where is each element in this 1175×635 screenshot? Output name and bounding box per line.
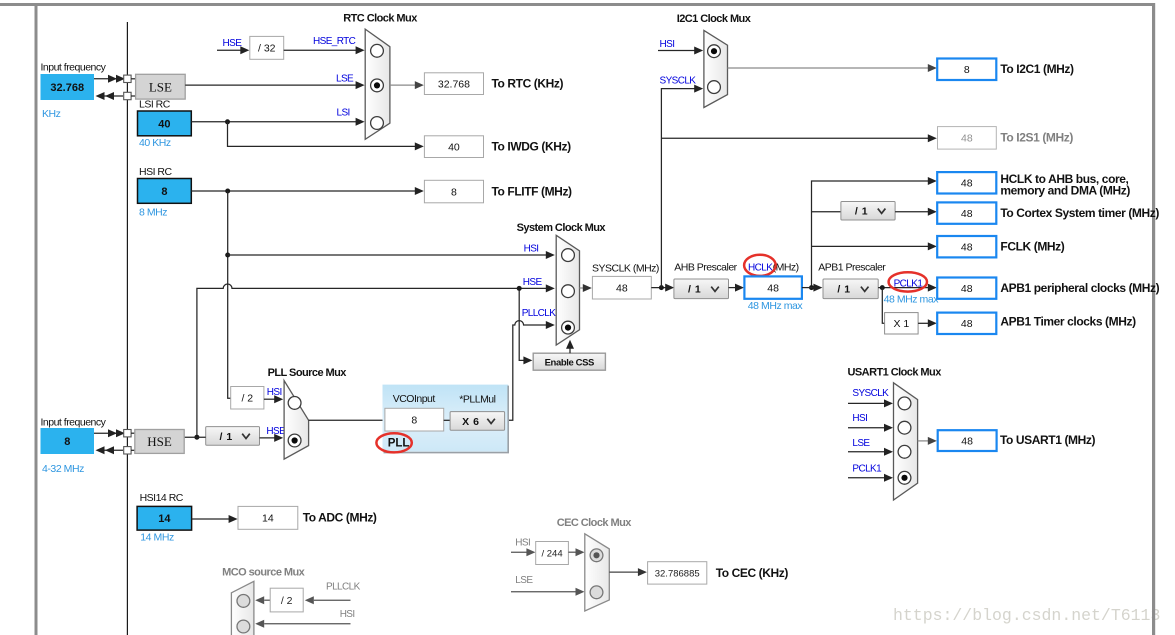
wire prescaler to PLL mux — [260, 437, 277, 439]
wire HSE to system clock mux with hop — [197, 284, 548, 437]
wire port to LSE box — [131, 78, 136, 80]
oscillator HSI RC box 8 — [138, 179, 192, 204]
value box To CEC — [648, 562, 707, 584]
red ellipse HCLK — [744, 255, 776, 276]
wire cortex to box — [895, 211, 930, 213]
value box SYSCLK 48 — [592, 276, 651, 299]
svg-text:MCO source Mux: MCO source Mux — [222, 566, 306, 578]
svg-text:48 MHz max: 48 MHz max — [748, 300, 804, 312]
svg-text:48: 48 — [961, 241, 973, 253]
divider MCO /2 box — [270, 588, 303, 612]
value box To IWDG — [424, 136, 483, 158]
wire HCLK bracket vertical — [812, 181, 931, 288]
mux MCO source Mux — [231, 581, 254, 635]
svg-text:HSE: HSE — [223, 38, 243, 49]
wire /244 to CEC mux — [568, 551, 578, 553]
svg-text:APB1 Timer clocks (MHz): APB1 Timer clocks (MHz) — [1000, 315, 1136, 329]
wire to X1 multiplier — [882, 288, 884, 324]
svg-text:To I2S1 (MHz): To I2S1 (MHz) — [1000, 131, 1073, 145]
svg-text:/ 1: / 1 — [837, 284, 850, 296]
port square in — [124, 75, 131, 82]
svg-text:*PLLMul: *PLLMul — [459, 394, 495, 406]
divider /32 box — [250, 36, 284, 59]
svg-text:LSE: LSE — [149, 80, 172, 95]
wire HSI to system clock mux — [228, 254, 548, 256]
svg-text:VCOInput: VCOInput — [393, 393, 436, 405]
svg-text:AHB Prescaler: AHB Prescaler — [674, 262, 737, 274]
wire Enable CSS to mux — [569, 346, 571, 353]
svg-text:HSI: HSI — [340, 609, 355, 620]
wire into /2 from PLLCLK — [305, 596, 314, 604]
divider /2 box — [231, 387, 264, 410]
oscillator HSI14 box 14 — [137, 506, 192, 530]
value box To ADC 14 — [238, 506, 298, 529]
svg-text:/ 1: / 1 — [220, 431, 233, 443]
svg-text:To FLITF (MHz): To FLITF (MHz) — [492, 184, 573, 198]
panel frame right edge — [1152, 3, 1155, 635]
svg-text:USART1 Clock Mux: USART1 Clock Mux — [848, 367, 943, 379]
svg-text:HSE: HSE — [147, 434, 172, 449]
svg-text:KHz: KHz — [42, 108, 61, 120]
value box To I2C1 — [937, 59, 996, 81]
dropdown PLLMul X6 — [450, 412, 505, 431]
PLL block panel — [383, 385, 509, 452]
svg-text:SYSCLK: SYSCLK — [852, 388, 889, 399]
svg-text:HSE: HSE — [523, 277, 543, 288]
svg-text:APB1 peripheral clocks (MHz): APB1 peripheral clocks (MHz) — [1000, 281, 1159, 295]
port square in (HSE) — [124, 430, 131, 437]
wire HSI to USART1 mux — [848, 427, 887, 429]
dropdown AHB /1 — [674, 279, 729, 299]
svg-text:To I2C1 (MHz): To I2C1 (MHz) — [1000, 62, 1074, 76]
svg-text:memory and DMA (MHz): memory and DMA (MHz) — [1000, 183, 1130, 197]
svg-text:PCLK1: PCLK1 — [852, 463, 882, 474]
svg-text:HSI14 RC: HSI14 RC — [140, 492, 184, 504]
wire PLLCLK to system clock mux with hop — [505, 321, 548, 421]
svg-text:/ 2: / 2 — [241, 392, 253, 404]
svg-text:CEC Clock Mux: CEC Clock Mux — [557, 517, 633, 529]
svg-text:32.768: 32.768 — [438, 78, 470, 90]
svg-text:RTC Clock Mux: RTC Clock Mux — [343, 13, 418, 25]
port square out (HSE) — [124, 447, 131, 454]
wire input to HSE port — [94, 432, 123, 434]
svg-text:HCLK: HCLK — [748, 263, 773, 274]
value box To USART1 — [938, 430, 997, 451]
svg-text:32.768: 32.768 — [50, 82, 84, 94]
wire HSI to FLITF — [191, 190, 417, 192]
svg-text:To IWDG (KHz): To IWDG (KHz) — [492, 140, 572, 154]
wire HSE to /32 — [217, 49, 243, 51]
svg-text:PLLCLK: PLLCLK — [522, 308, 557, 319]
svg-text:System Clock Mux: System Clock Mux — [517, 222, 607, 234]
wire LSE to USART1 mux — [848, 451, 887, 453]
wire USART1 mux output — [918, 440, 930, 442]
wire HSI to I2C1 mux — [658, 50, 697, 52]
red ellipse PLL — [376, 433, 411, 452]
svg-text:PLL: PLL — [388, 438, 410, 450]
svg-text:48: 48 — [961, 318, 973, 330]
value box FCLK — [937, 236, 996, 257]
svg-text:8 MHz: 8 MHz — [139, 207, 167, 219]
svg-text:HSI: HSI — [852, 413, 867, 424]
wire LSE to CEC mux — [511, 591, 578, 593]
svg-text:PCLK1: PCLK1 — [894, 278, 924, 289]
svg-text:14: 14 — [262, 513, 274, 525]
red ellipse PCLK1 — [889, 272, 927, 291]
wire SYSCLK branch to I2S1 — [661, 137, 930, 139]
mux I2C1 Clock Mux — [704, 30, 728, 107]
button Enable CSS — [533, 353, 605, 370]
input frequency box 32.768 — [41, 74, 95, 100]
svg-text:48 MHz max: 48 MHz max — [884, 294, 940, 306]
wire port to HSE box — [131, 432, 135, 434]
value box To FLITF — [424, 180, 483, 203]
svg-text:40: 40 — [448, 141, 460, 153]
wire SYSCLK vertical to I2C1 — [661, 89, 696, 288]
wire PLL mux to VCO input — [309, 419, 385, 421]
wire HSI to MCO mux — [255, 620, 264, 628]
svg-text:To ADC (MHz): To ADC (MHz) — [303, 511, 377, 525]
svg-text:48: 48 — [961, 283, 973, 295]
mux RTC Clock Mux — [365, 29, 390, 139]
svg-text:4-32 MHz: 4-32 MHz — [42, 463, 84, 475]
svg-text:14: 14 — [158, 513, 171, 525]
svg-text:HSI: HSI — [660, 39, 675, 50]
svg-text:48: 48 — [767, 282, 779, 294]
svg-text:Input frequency: Input frequency — [41, 416, 107, 428]
value box Cortex timer — [937, 202, 996, 223]
wire HSE branch to Enable CSS — [519, 288, 526, 360]
svg-text:FCLK (MHz): FCLK (MHz) — [1000, 239, 1064, 253]
svg-text:/ 2: / 2 — [281, 595, 293, 607]
svg-text:48: 48 — [961, 178, 973, 190]
wire VCO to PLLMul — [444, 419, 450, 421]
oscillator HSE box — [135, 430, 184, 454]
wire /2 to PLL mux — [264, 398, 277, 400]
svg-text:HSI: HSI — [515, 537, 530, 548]
svg-text:SYSCLK (MHz): SYSCLK (MHz) — [592, 263, 659, 275]
value box HCLK AHB — [937, 172, 996, 193]
svg-text:Input frequency: Input frequency — [41, 62, 107, 74]
svg-text:To CEC (KHz): To CEC (KHz) — [716, 566, 789, 580]
input frequency box 8 — [41, 428, 95, 454]
svg-text:PLL Source Mux: PLL Source Mux — [268, 367, 348, 379]
wire input to LSE port — [94, 78, 123, 80]
wire APB1 to peripheral box — [878, 287, 930, 289]
dropdown cortex /1 — [841, 202, 895, 221]
svg-text:8: 8 — [964, 64, 970, 76]
wire SYSCLK to USART1 mux — [848, 402, 887, 404]
oscillator LSI RC box 40 — [138, 111, 192, 136]
svg-text:8: 8 — [64, 436, 70, 448]
oscillator LSE box — [136, 74, 186, 99]
svg-text:HSE_RTC: HSE_RTC — [313, 36, 356, 47]
wire LSE return port — [104, 95, 123, 97]
svg-text:LSE: LSE — [515, 575, 533, 586]
svg-text:8: 8 — [161, 186, 167, 198]
mux CEC Clock Mux — [585, 534, 610, 611]
wire HSI vertical distribution — [228, 191, 231, 398]
svg-text:48: 48 — [961, 208, 973, 220]
wire PLLCLK to MCO /2 — [255, 596, 264, 604]
svg-text:48: 48 — [961, 133, 973, 145]
value box APB1 peripheral — [937, 278, 996, 299]
wire I2C1 mux output — [728, 67, 931, 69]
wire HSI to /244 — [511, 551, 529, 553]
wire RTC mux output — [390, 84, 416, 86]
svg-text:8: 8 — [411, 414, 417, 426]
svg-text:https://blog.csdn.net/T6113: https://blog.csdn.net/T6113 — [893, 606, 1160, 625]
svg-text:40: 40 — [158, 118, 170, 130]
wire SYSCLK to AHB prescaler — [651, 287, 668, 289]
wire LSE to RTC mux — [185, 84, 358, 86]
svg-text:X 6: X 6 — [462, 416, 479, 428]
svg-text:LSI RC: LSI RC — [139, 99, 171, 111]
divider /244 box — [536, 542, 569, 565]
svg-text:LSI: LSI — [337, 108, 350, 119]
wire HSE return port — [104, 449, 123, 451]
wire LSI branch to IWDG — [228, 122, 418, 147]
svg-text:32.786885: 32.786885 — [655, 569, 700, 580]
panel frame top edge — [0, 3, 1155, 6]
value box APB1 timer — [937, 313, 996, 334]
mux System Clock Mux — [556, 235, 579, 345]
svg-text:/ 1: / 1 — [855, 206, 868, 218]
value box To RTC — [424, 73, 483, 95]
svg-text:APB1 Prescaler: APB1 Prescaler — [818, 262, 886, 274]
svg-text:To RTC (KHz): To RTC (KHz) — [492, 77, 564, 91]
svg-text:LSE: LSE — [852, 438, 870, 449]
wire LSI to RTC mux — [191, 121, 358, 123]
multiplier X1 box — [885, 313, 919, 334]
value box HCLK 48 — [744, 276, 802, 298]
wire HSI14 to ADC — [192, 518, 231, 520]
svg-text:8: 8 — [451, 186, 457, 198]
svg-text:/ 32: / 32 — [258, 43, 276, 55]
dropdown APB1 /1 — [823, 279, 878, 299]
mux PLL Source Mux — [284, 381, 309, 460]
svg-text:/ 244: / 244 — [541, 549, 562, 560]
svg-text:LSE: LSE — [336, 73, 354, 84]
wire X1 to timer box — [918, 322, 930, 324]
panel frame left edge — [35, 3, 38, 635]
wire HCLK to APB1 prescaler — [802, 287, 816, 289]
value box VCOInput 8 — [385, 408, 444, 431]
oscillator boundary line — [126, 22, 128, 635]
mux USART1 Clock Mux — [894, 383, 918, 500]
svg-text:X 1: X 1 — [893, 318, 909, 330]
svg-text:40 KHz: 40 KHz — [139, 137, 171, 149]
svg-text:HSI RC: HSI RC — [139, 166, 173, 178]
svg-text:48: 48 — [961, 435, 973, 447]
dropdown HSE /1 — [206, 427, 260, 446]
wire to cortex prescaler — [812, 211, 841, 213]
svg-text:HSI: HSI — [524, 244, 539, 255]
svg-text:Enable CSS: Enable CSS — [545, 357, 594, 368]
svg-text:14 MHz: 14 MHz — [140, 531, 174, 543]
wire HSE box to prescaler — [184, 436, 206, 438]
wire FCLK row — [812, 245, 931, 247]
wire CEC mux output — [609, 571, 640, 573]
value box To I2S1 — [938, 127, 997, 150]
svg-text:I2C1 Clock Mux: I2C1 Clock Mux — [677, 13, 752, 25]
wire mux to SYSCLK box — [580, 287, 586, 289]
port square out — [124, 92, 131, 99]
svg-text:To Cortex System timer (MHz): To Cortex System timer (MHz) — [1000, 206, 1159, 220]
svg-text:/ 1: / 1 — [688, 284, 701, 296]
wire PCLK1 to USART1 mux — [848, 477, 887, 479]
svg-text:To USART1 (MHz): To USART1 (MHz) — [1000, 433, 1096, 447]
wire /32 to RTC mux — [284, 49, 358, 51]
svg-text:PLLCLK: PLLCLK — [326, 581, 361, 592]
svg-text:48: 48 — [616, 282, 628, 294]
svg-text:SYSCLK: SYSCLK — [660, 75, 697, 86]
wire AHB to HCLK box — [729, 287, 739, 289]
